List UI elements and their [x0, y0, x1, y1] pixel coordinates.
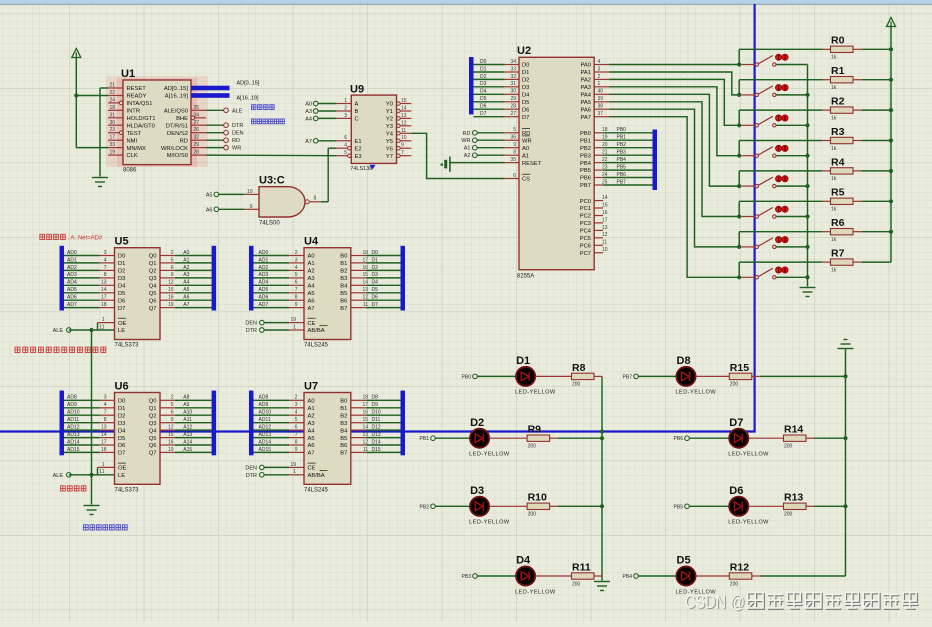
svg-text:DTR: DTR	[246, 328, 257, 334]
svg-text:PB3: PB3	[617, 150, 627, 156]
svg-text:R5: R5	[831, 187, 845, 199]
svg-text:A0: A0	[305, 102, 312, 108]
svg-text:ALE: ALE	[53, 473, 64, 479]
svg-text:B1: B1	[340, 261, 347, 267]
svg-text:A5: A5	[206, 192, 213, 198]
svg-text:AD13: AD13	[259, 432, 272, 438]
svg-text:17: 17	[362, 402, 368, 408]
svg-text:16: 16	[602, 210, 608, 216]
svg-text:6: 6	[344, 135, 347, 141]
svg-text:A4: A4	[308, 428, 316, 434]
svg-text:ALE/QS0: ALE/QS0	[164, 109, 188, 115]
svg-text:B3: B3	[340, 276, 347, 282]
svg-text:D4: D4	[480, 89, 487, 95]
svg-text:DEN: DEN	[245, 465, 257, 471]
svg-text:7: 7	[295, 432, 298, 438]
svg-text:11: 11	[363, 302, 368, 308]
svg-text:A11: A11	[183, 417, 192, 423]
svg-text:U6: U6	[115, 380, 129, 392]
svg-text:A0: A0	[522, 146, 529, 152]
svg-text:D5: D5	[677, 555, 691, 567]
svg-text:A6: A6	[308, 443, 315, 449]
svg-text:Y7: Y7	[386, 154, 393, 160]
svg-text:10: 10	[247, 189, 253, 195]
svg-text:13: 13	[362, 287, 368, 293]
svg-text:A[16..19]: A[16..19]	[237, 95, 259, 101]
svg-text:PA0: PA0	[580, 63, 591, 69]
svg-text:Q4: Q4	[149, 284, 158, 290]
svg-text:14: 14	[401, 106, 407, 112]
svg-text:9: 9	[295, 302, 298, 308]
svg-text:PB5: PB5	[580, 168, 591, 174]
svg-text:ALE: ALE	[232, 108, 243, 114]
svg-text:14: 14	[602, 195, 608, 201]
svg-text:PA4: PA4	[580, 93, 591, 99]
svg-text:4: 4	[295, 265, 298, 271]
svg-text:AD15: AD15	[67, 447, 80, 453]
svg-text:7: 7	[295, 287, 298, 293]
svg-text:A0: A0	[183, 250, 189, 256]
svg-text:3: 3	[104, 250, 107, 256]
svg-text:INTA/QS1: INTA/QS1	[127, 101, 153, 107]
svg-text:DEN/S2: DEN/S2	[167, 131, 188, 137]
svg-text:21: 21	[109, 83, 115, 89]
svg-text:AD[0..15]: AD[0..15]	[237, 81, 260, 87]
svg-text:AD7: AD7	[259, 302, 269, 308]
svg-text:23: 23	[109, 127, 115, 133]
svg-text:D7: D7	[480, 111, 487, 117]
svg-text:WR: WR	[461, 138, 470, 144]
svg-text:WR: WR	[232, 146, 241, 152]
svg-text:13: 13	[101, 425, 107, 431]
svg-text:A6: A6	[206, 207, 213, 213]
svg-text:PB0: PB0	[617, 127, 627, 133]
svg-text:PB0: PB0	[462, 374, 472, 380]
svg-text:9: 9	[401, 143, 404, 149]
svg-text:E2: E2	[355, 146, 362, 152]
svg-text:E3: E3	[355, 154, 362, 160]
svg-text:D2: D2	[372, 265, 379, 271]
svg-text:AD14: AD14	[67, 439, 80, 445]
svg-text:D2: D2	[118, 413, 125, 419]
svg-text:PC3: PC3	[580, 221, 591, 227]
svg-text:AD4: AD4	[67, 280, 77, 286]
svg-text:12: 12	[168, 425, 174, 431]
svg-text:RD: RD	[232, 138, 240, 144]
svg-text:19: 19	[109, 150, 115, 156]
svg-text:AD3: AD3	[259, 272, 269, 278]
svg-text:B4: B4	[340, 428, 348, 434]
svg-text:B2: B2	[340, 269, 347, 275]
svg-text:5: 5	[513, 127, 516, 133]
svg-text:LED-YELLOW: LED-YELLOW	[469, 452, 510, 458]
svg-text:A[16..19]: A[16..19]	[165, 94, 189, 100]
svg-text:11: 11	[99, 324, 104, 330]
svg-text:D6: D6	[729, 485, 743, 497]
svg-text:PB6: PB6	[617, 172, 627, 178]
svg-text:74LS245: 74LS245	[304, 487, 329, 493]
svg-text:2: 2	[598, 74, 601, 80]
svg-text:8255A: 8255A	[517, 274, 534, 280]
svg-text:17: 17	[109, 135, 115, 141]
svg-text:15: 15	[168, 287, 174, 293]
svg-text:Y3: Y3	[386, 124, 393, 130]
svg-text:PB2: PB2	[580, 146, 591, 152]
svg-text:A7: A7	[183, 302, 189, 308]
svg-text:M/IO/S0: M/IO/S0	[167, 153, 188, 159]
svg-text:13: 13	[401, 113, 407, 119]
svg-text:A5: A5	[308, 436, 315, 442]
svg-text:A1: A1	[308, 406, 315, 412]
svg-text:A4: A4	[183, 280, 189, 286]
svg-text:13: 13	[362, 432, 368, 438]
svg-text:14: 14	[101, 287, 107, 293]
svg-text:A2: A2	[464, 153, 471, 159]
svg-text:D11: D11	[372, 417, 381, 423]
svg-text:4: 4	[344, 143, 347, 149]
svg-text:1k: 1k	[831, 55, 837, 61]
svg-text:A6: A6	[308, 298, 315, 304]
svg-text:Q7: Q7	[149, 306, 157, 312]
svg-text:3: 3	[104, 395, 107, 401]
svg-text:AD10: AD10	[259, 410, 272, 416]
svg-text:DT/R/S1: DT/R/S1	[166, 124, 188, 130]
svg-text:B1: B1	[340, 406, 347, 412]
svg-text:AD2: AD2	[259, 265, 269, 271]
svg-text:7: 7	[104, 410, 107, 416]
svg-text:6: 6	[171, 410, 174, 416]
svg-text:22: 22	[109, 90, 115, 96]
svg-text:D0: D0	[522, 63, 529, 69]
svg-text:RD: RD	[180, 138, 188, 144]
svg-text:Q0: Q0	[149, 254, 157, 260]
svg-text:PC6: PC6	[580, 244, 591, 250]
svg-text:R14: R14	[784, 424, 803, 436]
svg-text:16: 16	[362, 265, 368, 271]
svg-text:6: 6	[295, 425, 298, 431]
svg-text:8086: 8086	[123, 168, 137, 174]
svg-text:21: 21	[602, 150, 608, 156]
svg-text:11: 11	[363, 447, 368, 453]
svg-text:D4: D4	[118, 428, 126, 434]
svg-text:R8: R8	[572, 362, 586, 374]
svg-text:19: 19	[168, 302, 174, 308]
svg-text:R3: R3	[831, 126, 845, 138]
svg-text:13: 13	[602, 225, 608, 231]
svg-text:15: 15	[602, 202, 608, 208]
svg-text:D2: D2	[522, 78, 529, 84]
svg-text:DEN: DEN	[232, 131, 244, 137]
svg-text:12: 12	[168, 280, 174, 286]
svg-text:200: 200	[730, 581, 739, 587]
svg-text:TEST: TEST	[127, 131, 142, 137]
svg-text:A14: A14	[183, 439, 192, 445]
svg-text:Y0: Y0	[386, 102, 393, 108]
svg-text:A3: A3	[305, 109, 312, 115]
svg-text:24: 24	[602, 172, 608, 178]
svg-text:D3: D3	[480, 81, 487, 87]
svg-text:D7: D7	[118, 451, 125, 457]
svg-text:Q4: Q4	[149, 428, 158, 434]
svg-text:AD11: AD11	[67, 417, 79, 423]
svg-text:24: 24	[109, 97, 115, 103]
svg-text:74LS373: 74LS373	[115, 487, 140, 493]
svg-text:B7: B7	[340, 306, 347, 312]
svg-text:11: 11	[401, 128, 406, 134]
svg-text:U3:C: U3:C	[259, 174, 285, 186]
svg-text:INTR: INTR	[127, 109, 141, 115]
svg-text:1: 1	[293, 469, 296, 475]
svg-text:Q3: Q3	[149, 421, 157, 427]
svg-text:5: 5	[171, 257, 174, 263]
svg-text:AD8: AD8	[259, 395, 269, 401]
svg-text:PC1: PC1	[580, 206, 591, 212]
svg-text:AD12: AD12	[67, 425, 80, 431]
svg-text:4: 4	[104, 402, 107, 408]
svg-text:5: 5	[344, 150, 347, 156]
svg-text:D1: D1	[372, 257, 379, 263]
svg-text:RD: RD	[463, 131, 471, 137]
svg-text:D1: D1	[118, 261, 125, 267]
svg-text:B5: B5	[340, 291, 347, 297]
svg-text:14: 14	[362, 425, 368, 431]
svg-text:HLDA/GT0: HLDA/GT0	[127, 124, 155, 130]
svg-text:200: 200	[784, 444, 793, 450]
svg-text:6: 6	[513, 173, 516, 179]
svg-text:LE: LE	[118, 328, 125, 334]
svg-text:3: 3	[295, 257, 298, 263]
svg-text:3: 3	[344, 113, 347, 119]
svg-text:2: 2	[171, 250, 174, 256]
svg-text:D6: D6	[372, 295, 379, 301]
svg-text:LED-YELLOW: LED-YELLOW	[515, 390, 556, 396]
svg-text:Y5: Y5	[386, 139, 393, 145]
svg-text:DTR: DTR	[246, 473, 257, 479]
svg-text:A2: A2	[308, 269, 315, 275]
svg-text:18: 18	[362, 395, 368, 401]
svg-text:D1: D1	[516, 355, 530, 367]
svg-text:D1: D1	[118, 406, 125, 412]
svg-text:D2: D2	[470, 417, 484, 429]
svg-text:D8: D8	[677, 355, 691, 367]
svg-text:B0: B0	[340, 254, 347, 260]
svg-text:LE: LE	[118, 473, 125, 479]
svg-text:R6: R6	[831, 217, 845, 229]
svg-text:8: 8	[295, 295, 298, 301]
svg-text:Y1: Y1	[386, 109, 393, 115]
svg-text:PB3: PB3	[580, 153, 591, 159]
svg-text:U1: U1	[121, 68, 135, 80]
svg-text:READY: READY	[127, 94, 147, 100]
svg-text:18: 18	[101, 302, 107, 308]
svg-text:AD11: AD11	[259, 417, 271, 423]
svg-text:D15: D15	[372, 447, 381, 453]
svg-text:Q1: Q1	[149, 406, 157, 412]
svg-text:R11: R11	[572, 561, 591, 573]
svg-text:PB4: PB4	[617, 157, 627, 163]
svg-text:R2: R2	[831, 96, 845, 108]
svg-text:D4: D4	[522, 93, 530, 99]
svg-text:AD9: AD9	[259, 402, 269, 408]
svg-text:A0: A0	[308, 399, 315, 405]
svg-text:9: 9	[513, 142, 516, 148]
svg-text:D7: D7	[522, 115, 529, 121]
svg-text:A4: A4	[305, 116, 312, 122]
svg-text:AD4: AD4	[259, 280, 269, 286]
svg-text:D4: D4	[372, 280, 379, 286]
svg-text:PB1: PB1	[617, 135, 627, 141]
svg-text:B3: B3	[340, 421, 347, 427]
svg-text:D1: D1	[480, 66, 487, 72]
svg-text:AD8: AD8	[67, 395, 77, 401]
svg-text:R13: R13	[784, 492, 803, 504]
svg-text:20: 20	[602, 142, 608, 148]
svg-text:18: 18	[101, 447, 107, 453]
svg-text:2: 2	[295, 395, 298, 401]
svg-text:PB6: PB6	[674, 436, 684, 442]
svg-text:PB5: PB5	[674, 504, 684, 510]
svg-text:8: 8	[513, 150, 516, 156]
svg-text:A2: A2	[183, 265, 189, 271]
svg-text:25: 25	[602, 179, 608, 185]
svg-text:1k: 1k	[831, 85, 837, 91]
svg-text:ALE: ALE	[53, 328, 64, 334]
svg-text:CS: CS	[522, 177, 530, 183]
svg-text:Q3: Q3	[149, 276, 157, 282]
svg-text:AB/BA: AB/BA	[308, 328, 325, 334]
svg-text:18: 18	[109, 105, 115, 111]
svg-text:AD0: AD0	[259, 250, 269, 256]
svg-text:RESET: RESET	[127, 86, 147, 92]
svg-text:23: 23	[602, 165, 608, 171]
svg-text:B2: B2	[340, 413, 347, 419]
svg-text:D9: D9	[372, 402, 379, 408]
svg-text:Q5: Q5	[149, 436, 157, 442]
svg-text:40: 40	[598, 89, 604, 95]
svg-text:A7: A7	[308, 306, 315, 312]
svg-text:D12: D12	[372, 425, 381, 431]
svg-text:D4: D4	[118, 284, 126, 290]
svg-text:OE: OE	[118, 321, 127, 327]
svg-text:A8: A8	[183, 395, 189, 401]
svg-text:D10: D10	[372, 410, 381, 416]
svg-text:7: 7	[104, 265, 107, 271]
svg-text:Q1: Q1	[149, 261, 157, 267]
svg-text:PC5: PC5	[580, 236, 591, 242]
svg-text:B5: B5	[340, 436, 347, 442]
svg-text:PB4: PB4	[623, 574, 633, 580]
svg-text:D5: D5	[372, 287, 379, 293]
svg-text:PC7: PC7	[580, 251, 591, 257]
svg-text:PB1: PB1	[580, 138, 591, 144]
svg-text:PB7: PB7	[623, 374, 633, 380]
svg-text:PB7: PB7	[617, 179, 627, 185]
svg-text:30: 30	[109, 120, 115, 126]
svg-text:R15: R15	[730, 362, 749, 374]
svg-text:D3: D3	[470, 485, 484, 497]
svg-text:C: C	[355, 117, 359, 123]
svg-text:PB4: PB4	[580, 161, 592, 167]
svg-text:17: 17	[362, 257, 368, 263]
svg-text:19: 19	[168, 447, 174, 453]
svg-text:U7: U7	[304, 380, 318, 392]
svg-text:Y2: Y2	[386, 117, 393, 123]
svg-text:15: 15	[362, 417, 368, 423]
svg-text:PA1: PA1	[580, 70, 591, 76]
svg-text:10: 10	[602, 247, 608, 253]
svg-text:1k: 1k	[831, 115, 837, 121]
svg-text:8: 8	[104, 272, 107, 278]
svg-text:AD9: AD9	[67, 402, 77, 408]
svg-text:3: 3	[598, 66, 601, 72]
svg-text:U5: U5	[115, 236, 129, 248]
svg-text:1: 1	[102, 317, 105, 323]
svg-text:PB3: PB3	[462, 574, 472, 580]
svg-text:3: 3	[295, 402, 298, 408]
svg-text:12: 12	[362, 439, 368, 445]
svg-text:D5: D5	[522, 100, 529, 106]
svg-text:37: 37	[598, 111, 604, 117]
svg-text:D4: D4	[516, 555, 531, 567]
svg-text:. A. Net=AD#: . A. Net=AD#	[68, 236, 104, 242]
svg-text:6: 6	[295, 280, 298, 286]
svg-text:AD2: AD2	[67, 265, 77, 271]
svg-text:A: A	[355, 102, 359, 108]
svg-text:A1: A1	[522, 153, 529, 159]
svg-text:AD10: AD10	[67, 410, 80, 416]
svg-text:AD0: AD0	[67, 250, 77, 256]
svg-text:D2: D2	[118, 269, 125, 275]
svg-text:U9: U9	[350, 84, 364, 96]
svg-text:PA2: PA2	[580, 78, 591, 84]
svg-text:WR/LOCK: WR/LOCK	[161, 146, 188, 152]
svg-text:DEN: DEN	[245, 321, 257, 327]
svg-text:D5: D5	[118, 436, 125, 442]
svg-text:BHE: BHE	[176, 116, 188, 122]
svg-text:LED-YELLOW: LED-YELLOW	[728, 520, 769, 526]
svg-text:PC2: PC2	[580, 214, 591, 220]
svg-text:PA3: PA3	[580, 85, 591, 91]
svg-text:1: 1	[598, 81, 601, 87]
svg-text:PC4: PC4	[580, 229, 592, 235]
svg-text:A1: A1	[308, 261, 315, 267]
svg-text:D8: D8	[372, 395, 379, 401]
svg-text:16: 16	[168, 295, 174, 301]
svg-text:CSDN @: CSDN @	[685, 591, 745, 612]
svg-text:4: 4	[598, 59, 601, 65]
svg-text:2: 2	[344, 106, 347, 112]
svg-text:15: 15	[401, 98, 407, 104]
svg-text:11: 11	[602, 240, 607, 246]
svg-text:1k: 1k	[831, 267, 837, 273]
svg-text:A3: A3	[308, 276, 315, 282]
svg-text:AD[0..15]: AD[0..15]	[164, 86, 189, 92]
svg-text:R1: R1	[831, 65, 845, 77]
svg-text:200: 200	[730, 382, 739, 388]
svg-text:D3: D3	[372, 272, 379, 278]
svg-text:9: 9	[295, 447, 298, 453]
svg-text:A7: A7	[308, 451, 315, 457]
svg-text:R10: R10	[528, 492, 547, 504]
svg-text:LED-YELLOW: LED-YELLOW	[469, 520, 510, 526]
svg-text:74LS245: 74LS245	[304, 343, 329, 349]
svg-text:PB2: PB2	[420, 504, 430, 510]
svg-text:36: 36	[510, 135, 516, 141]
svg-text:A5: A5	[308, 291, 315, 297]
svg-text:4: 4	[295, 410, 298, 416]
svg-text:Q6: Q6	[149, 443, 157, 449]
svg-text:AD1: AD1	[67, 257, 77, 263]
